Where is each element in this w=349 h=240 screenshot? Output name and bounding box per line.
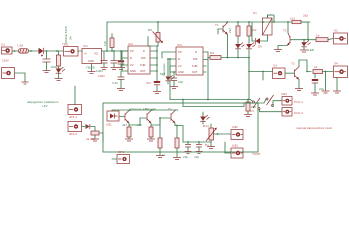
svg-text:1k: 1k <box>314 65 318 69</box>
connector X8 <box>231 144 260 159</box>
relay contact K1-2 <box>244 95 282 107</box>
svg-text:THR: THR <box>192 64 197 68</box>
green note text (vertical) <box>64 26 73 44</box>
IC1 voltage regulator 78L05 <box>82 44 102 70</box>
svg-text:22p: 22p <box>183 155 188 159</box>
wire: top supply rail <box>107 21 310 51</box>
svg-text:100n: 100n <box>96 69 103 73</box>
svg-text:22p: 22p <box>194 155 199 159</box>
svg-text:U$2: U$2 <box>232 125 238 129</box>
svg-text:OUT: OUT <box>192 70 198 74</box>
svg-text:DIS: DIS <box>141 56 146 60</box>
capacitor C7 <box>170 72 183 89</box>
IC2 timer (left) <box>128 42 150 74</box>
wire: IC3 left pins <box>162 52 176 73</box>
wire: +5V net from IC1 <box>102 50 129 52</box>
svg-text:2x1: 2x1 <box>290 17 295 21</box>
svg-text:KO1-1: KO1-1 <box>294 100 303 104</box>
svg-text:100u: 100u <box>98 74 105 78</box>
diode D6 (flyback) <box>252 22 268 49</box>
svg-text:X1: X1 <box>1 43 5 47</box>
diode D9 <box>82 124 96 131</box>
connector X2b (110V return) <box>2 68 15 79</box>
resistor R4 (IC3 output) <box>208 51 238 60</box>
svg-text:GP1: GP1 <box>118 150 124 154</box>
note: module label (green, left) <box>27 100 59 108</box>
svg-text:1k: 1k <box>162 153 166 157</box>
svg-text:DIS: DIS <box>193 57 198 61</box>
ground (C1) <box>43 71 51 73</box>
ground (after R9) <box>322 72 330 94</box>
resistor R7 (inline on rail) <box>268 14 309 41</box>
transistor T6 (IR stage 3) <box>171 110 183 142</box>
svg-text:D: D <box>195 50 197 54</box>
ground (module return) <box>91 135 99 141</box>
transistor T5 (IR stage 2) <box>147 110 171 127</box>
resistor R15 (bias, x=160) <box>156 118 164 158</box>
LED D2 (zener indicator) <box>56 67 65 78</box>
resistor R13 (vertical, under T6) <box>173 126 181 160</box>
relay K1 coil <box>253 11 272 41</box>
svg-text:DIODE 5408: DIODE 5408 <box>64 26 68 44</box>
wire: IC2 right pins <box>150 46 158 80</box>
note: IR module title <box>130 107 172 111</box>
diode D1 1N5408 <box>39 48 44 54</box>
svg-text:JP1-1: JP1-1 <box>69 115 77 119</box>
connector X10 <box>68 105 82 120</box>
resistor R17 (10k) <box>86 131 103 142</box>
connector X3 (channel 2 input) <box>273 64 286 79</box>
resistor R8 (to X2) <box>308 34 333 42</box>
fuse F1 1,5A <box>17 44 29 54</box>
svg-text:3,3u: 3,3u <box>112 81 118 85</box>
switch S1 (boxed) <box>62 43 78 57</box>
transistor T4 (IR stage 1) <box>119 110 147 127</box>
resistor R12 (vertical) <box>147 127 155 141</box>
LED D4 <box>235 43 244 59</box>
svg-text:D: D <box>143 49 145 53</box>
svg-text:IC2: IC2 <box>128 42 133 46</box>
svg-text:10k: 10k <box>103 41 107 46</box>
connector X11 <box>68 122 82 137</box>
svg-text:1k: 1k <box>316 34 320 38</box>
svg-text:R: R <box>178 57 180 61</box>
capacitor C3 <box>111 51 118 70</box>
svg-text:R4: R4 <box>210 51 214 55</box>
LED D3 (small, vertical) <box>160 59 174 84</box>
capacitor C1 100u (polarized) <box>41 51 58 70</box>
ground (LED) <box>55 79 63 81</box>
note: manual switch text <box>296 126 332 130</box>
resistor R6 (vertical) <box>247 22 257 44</box>
trimmer R14 <box>203 124 218 149</box>
ground (T2 emitter) <box>274 46 287 52</box>
svg-text:10n: 10n <box>178 80 183 84</box>
svg-text:4k7: 4k7 <box>122 123 127 127</box>
ground (LED D7) <box>300 50 308 52</box>
svg-text:KO1-2: KO1-2 <box>294 111 303 115</box>
ground (IC1) <box>88 64 106 79</box>
svg-text:TR: TR <box>178 50 182 54</box>
wire: trimmer to jack <box>218 134 232 153</box>
ground (X4 pin 2) <box>333 78 341 94</box>
trimmer R3 <box>148 22 163 46</box>
svg-text:X2: X2 <box>334 29 338 33</box>
svg-text:THR: THR <box>140 63 145 67</box>
LED D8 <box>200 112 209 124</box>
wire: X2b to ground <box>15 73 26 82</box>
resistor R2 10k (pull-up) <box>103 34 114 52</box>
transistor T3 <box>285 60 299 88</box>
capacitor C4 (polarized) <box>117 51 125 70</box>
svg-text:K1: K1 <box>253 11 257 15</box>
svg-text:R: R <box>130 56 132 60</box>
capacitor C9 (22p) <box>183 142 192 159</box>
ground (X2b) <box>22 82 29 84</box>
svg-text:VO: VO <box>94 52 98 56</box>
svg-text:47u: 47u <box>146 81 151 85</box>
capacitor C8 (polarized) <box>311 71 324 95</box>
svg-text:CV: CV <box>130 63 134 67</box>
note: misc value labels <box>96 69 209 157</box>
relay contact K1-1 <box>250 98 282 113</box>
svg-text:JP1-2: JP1-2 <box>69 132 77 136</box>
IC3 timer (right) <box>176 43 203 75</box>
svg-text:1,5A: 1,5A <box>17 44 24 48</box>
svg-text:VI: VI <box>84 52 87 56</box>
svg-text:GND: GND <box>130 69 136 73</box>
svg-text:K1: K1 <box>250 109 254 113</box>
wire: channel 2 net <box>238 58 273 81</box>
svg-text:GND: GND <box>88 59 94 63</box>
svg-text:R14: R14 <box>203 124 209 128</box>
frame: IR receiver module <box>103 103 258 152</box>
svg-text:T2: T2 <box>283 29 287 33</box>
resistor R11 (vertical) <box>125 127 133 141</box>
svg-text:D6: D6 <box>258 45 262 49</box>
svg-text:22u: 22u <box>319 87 324 91</box>
connector X4 <box>334 62 348 78</box>
connector X5 (KO1-1) <box>281 92 303 105</box>
svg-text:U$4: U$4 <box>281 92 287 96</box>
connector X2 <box>334 29 348 45</box>
transistor T2 (mirrored NPN) <box>283 22 308 46</box>
connector X6 (KO1-2) <box>282 108 303 117</box>
svg-text:T3: T3 <box>291 62 295 66</box>
resistor R10 (2k2 to ground) <box>244 100 256 117</box>
connector X9 (below frame) <box>112 150 130 164</box>
svg-text:CV: CV <box>178 64 182 68</box>
capacitor C10 (22p) <box>194 142 203 159</box>
svg-text:TSOP: TSOP <box>252 152 260 156</box>
svg-text:OUT: OUT <box>140 69 146 73</box>
svg-text:5k6: 5k6 <box>160 72 165 76</box>
svg-text:78L05: 78L05 <box>86 66 95 70</box>
resistor R5 (vertical) <box>228 22 240 44</box>
transistor T1 <box>215 22 228 58</box>
wire: IC3 right pins <box>203 52 208 72</box>
wire: IC3 feedback loop and relay contact feed nets <box>169 52 250 107</box>
capacitor C5 (IC2 left, 3,3u) <box>112 71 125 91</box>
svg-text:T1: T1 <box>215 23 219 27</box>
wire: AC input net <box>12 50 82 52</box>
ground (T3) <box>295 89 303 91</box>
svg-text:X3: X3 <box>273 64 277 68</box>
svg-text:U$1: U$1 <box>106 123 112 127</box>
svg-text:2k2: 2k2 <box>228 28 232 33</box>
svg-text:GND: GND <box>178 70 184 74</box>
svg-text:IC3: IC3 <box>177 43 182 47</box>
svg-text:TM1: TM1 <box>62 43 68 47</box>
wire: IC2 left pins <box>122 51 128 71</box>
svg-text:LED: LED <box>308 48 315 52</box>
LED D5 <box>246 43 255 100</box>
capacitor C6 (polarized, under IC2 right) <box>146 80 161 94</box>
svg-text:2k2: 2k2 <box>303 14 308 18</box>
svg-text:IC1: IC1 <box>83 44 88 48</box>
wire: +5V to module connectors <box>74 86 76 105</box>
svg-text:+5V: +5V <box>42 104 49 108</box>
svg-text:ca 10k: ca 10k <box>86 137 96 141</box>
resistor R1 (vertical) <box>57 51 61 68</box>
IR receiver U1 <box>106 111 119 127</box>
resistor R9 (to X4) <box>299 60 333 74</box>
svg-text:110V: 110V <box>2 59 10 63</box>
svg-text:U$3: U$3 <box>232 144 238 148</box>
svg-text:X4: X4 <box>334 62 338 66</box>
note: tuning text (vertical, right of IC2) <box>162 63 166 76</box>
LED D7 <box>301 39 314 52</box>
svg-text:TR: TR <box>130 49 134 53</box>
connector X7 <box>231 125 243 140</box>
capacitor C2 <box>101 51 108 70</box>
svg-text:R3: R3 <box>148 28 152 32</box>
wire: detector output net <box>183 141 211 143</box>
wire: IR frame top rail <box>112 109 178 111</box>
connector X1 <box>1 43 12 63</box>
svg-text:manual kapcsolohoz csatl.: manual kapcsolohoz csatl. <box>296 126 332 130</box>
